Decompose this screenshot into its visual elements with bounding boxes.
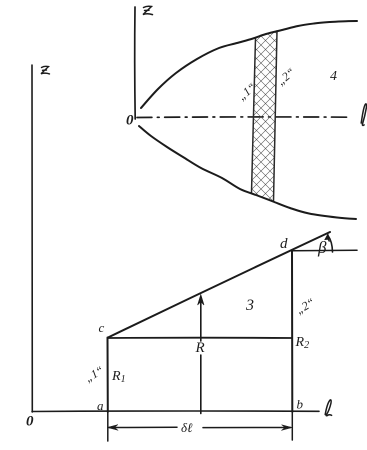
strip right edge [274, 31, 278, 202]
horizontal line c to R2 [108, 337, 292, 339]
horizontal reference line from d [292, 249, 357, 252]
label z (bottom figure) [41, 66, 50, 74]
extension line below a [107, 412, 109, 441]
beta arc arrowhead [325, 234, 329, 242]
side b-d (radius R2 edge) [291, 251, 293, 413]
label l (top axis, script ell) [361, 104, 366, 126]
svg-text:„1“: „1“ [82, 363, 106, 385]
centerline axis l (dash-dot) [137, 116, 352, 119]
axis z (top figure) [134, 7, 137, 119]
svg-text:c: c [99, 320, 105, 335]
svg-text:R2: R2 [295, 335, 310, 351]
svg-text:R: R [195, 340, 205, 356]
strip left edge [252, 38, 256, 193]
label z (top figure) [143, 6, 153, 14]
R arrow shaft lower [200, 355, 202, 414]
R arrowhead [198, 295, 204, 306]
svg-text:„2“: „2“ [274, 65, 298, 88]
axis z (bottom figure) [31, 65, 34, 412]
svg-text:„2“: „2“ [293, 295, 317, 317]
svg-text:0: 0 [26, 414, 34, 430]
svg-text:a: a [97, 398, 104, 413]
upper contour curve [141, 21, 357, 108]
lower contour curve [139, 126, 356, 219]
svg-text:3: 3 [245, 297, 254, 314]
dimension line delta-l right segment with arrow [203, 427, 291, 429]
axis l horizontal (bottom figure) [32, 410, 319, 413]
hatched strip (element between sections 1 and 2) [252, 31, 278, 202]
angle beta arc with arrow [328, 235, 333, 252]
dimension line delta-l left segment with arrow [109, 426, 177, 428]
svg-text:R1: R1 [111, 369, 126, 385]
R arrow shaft upper [200, 297, 202, 341]
slant line c-d extended with tip [108, 232, 330, 338]
label l (bottom axis, script ell) [325, 400, 331, 416]
svg-text:β: β [317, 238, 327, 257]
dimension right arrowhead [282, 425, 292, 431]
svg-text:0: 0 [126, 113, 134, 129]
extension line below b [291, 412, 293, 440]
svg-text:δℓ: δℓ [181, 420, 193, 435]
svg-text:d: d [280, 236, 288, 252]
svg-text:b: b [297, 397, 304, 412]
dimension left arrowhead [108, 425, 119, 431]
svg-text:4: 4 [330, 69, 337, 84]
side a-c (radius R1 edge) [107, 338, 109, 413]
